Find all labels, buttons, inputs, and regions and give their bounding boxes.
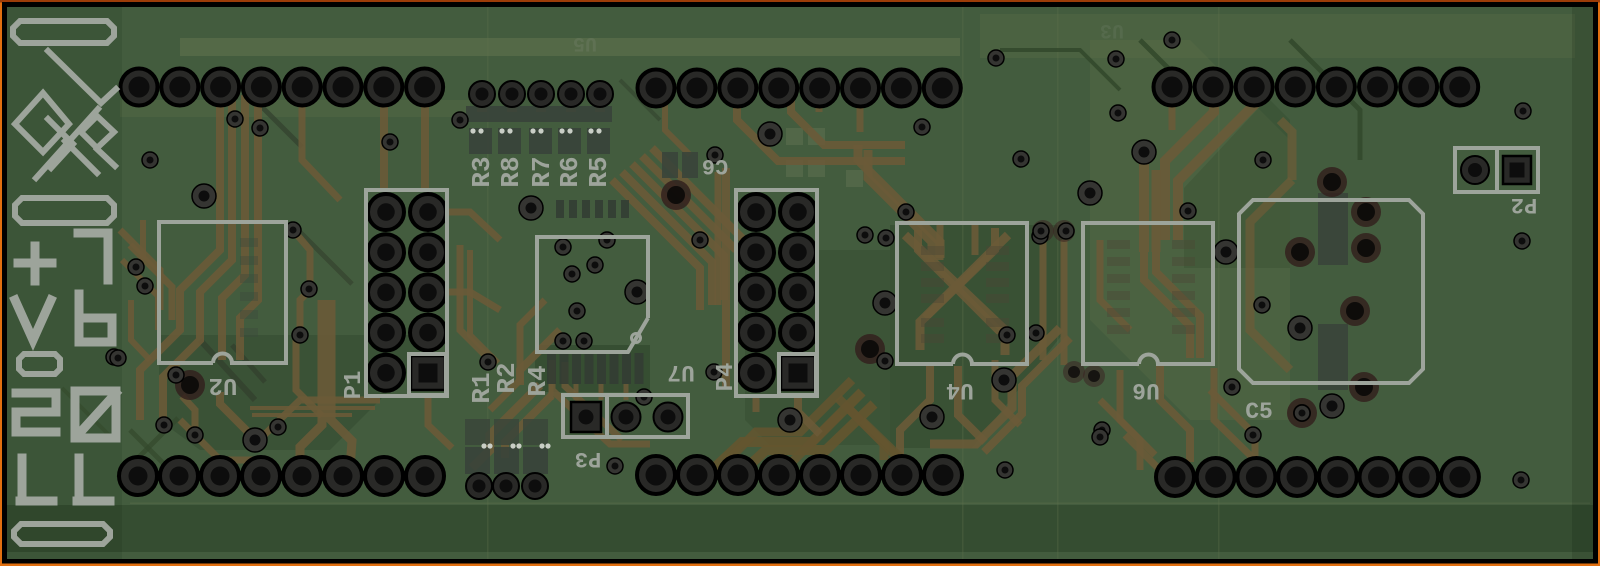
svg-text:U7: U7 [667,359,695,385]
svg-text:R2: R2 [492,362,522,393]
svg-text:R4: R4 [523,365,553,396]
svg-text:U3: U3 [1100,18,1124,41]
svg-text:P1: P1 [341,371,368,400]
svg-text:P2: P2 [1511,192,1537,217]
svg-text:R6: R6 [555,156,585,187]
svg-text:P3: P3 [575,446,601,471]
svg-text:R8: R8 [496,156,526,187]
svg-text:U6: U6 [1132,377,1160,403]
svg-text:R7: R7 [527,156,557,187]
svg-text:R5: R5 [584,156,614,187]
svg-text:U5: U5 [573,31,597,54]
svg-text:U4: U4 [946,377,974,403]
svg-text:U2: U2 [209,371,238,398]
svg-text:R3: R3 [467,156,497,187]
svg-text:C6: C6 [702,153,728,178]
svg-text:P4: P4 [713,363,740,392]
svg-text:C5: C5 [1245,399,1273,425]
